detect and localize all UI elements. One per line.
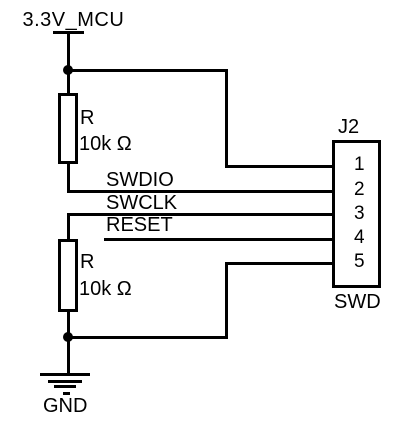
resistor R1 value 10kΩ xyxy=(79,134,132,154)
resistor R1 body xyxy=(58,93,78,164)
wire: R1 bottom to SWDIO net xyxy=(67,164,70,193)
connector J2 type label SWD xyxy=(334,292,381,312)
wire: vertical VCC feed down to pin 1 level xyxy=(225,69,228,168)
wire: R2 bottom to ground node B xyxy=(67,311,70,339)
ground bar 2 xyxy=(48,380,82,383)
connector J2 pin 1 number xyxy=(354,155,365,174)
ground label GND xyxy=(43,396,87,416)
wire: SWCLK down to resistor R2 xyxy=(67,213,70,240)
node B junction dot xyxy=(63,332,73,342)
net label RESET xyxy=(106,215,173,235)
connector J2 pin 5 number xyxy=(354,252,365,271)
wire: node B to right (ground feed to pin 5) xyxy=(68,336,228,339)
net label SWCLK xyxy=(106,193,177,213)
wire: SWCLK net to pin 3 xyxy=(67,213,336,216)
wire: vertical ground feed up to pin 5 level xyxy=(225,262,228,339)
wire: power bar down through node A to resistor R1 xyxy=(67,33,70,93)
connector J2 body xyxy=(332,140,381,288)
resistor R2 value 10kΩ xyxy=(79,279,132,299)
connector J2 pin 4 number xyxy=(354,228,365,247)
power symbol bar 3.3V_MCU xyxy=(53,31,84,34)
ground bar 1 xyxy=(40,373,90,376)
connector J2 pin 3 number xyxy=(354,204,365,223)
connector J2 pin 2 number xyxy=(354,180,365,199)
ground bar 4 xyxy=(63,392,70,395)
resistor R2 body xyxy=(58,239,78,312)
net label SWDIO xyxy=(106,170,174,190)
resistor R2 designator R xyxy=(80,252,94,272)
node A junction dot xyxy=(63,65,73,75)
power net 3.3V_MCU label xyxy=(23,10,125,30)
connector J2 designator xyxy=(338,117,359,137)
wire: node A to right (VCC feed) xyxy=(68,69,228,72)
wire: horizontal into pin 5 xyxy=(225,262,335,265)
wire: horizontal into pin 1 xyxy=(225,165,335,168)
ground bar 3 xyxy=(54,385,76,388)
wire: SWDIO net to pin 2 xyxy=(67,190,336,193)
wire: RESET net to pin 4 xyxy=(104,238,336,241)
resistor R1 designator R xyxy=(80,108,94,128)
wire: node B down to ground symbol xyxy=(67,337,70,373)
